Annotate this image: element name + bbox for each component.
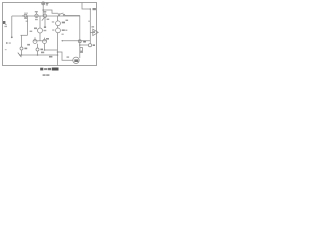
label TR5 <box>62 29 65 31</box>
potentiometer VR3 <box>43 12 46 17</box>
node on bottom rail <box>57 51 59 53</box>
caption word 7.1 <box>44 68 47 70</box>
node on rail second row <box>79 44 81 46</box>
potentiometer VR1 <box>22 14 27 17</box>
terminal T1b <box>36 48 39 51</box>
node top right <box>90 8 92 10</box>
wire output row to T2 <box>62 40 91 42</box>
caption word bold <box>52 68 59 71</box>
diode D1 on lower bus <box>18 53 22 58</box>
label ground <box>9 42 11 43</box>
label small below VR1 <box>26 21 28 22</box>
jack tail <box>5 24 7 25</box>
wire top-right from frame <box>82 3 90 10</box>
label TR3 <box>34 28 37 30</box>
label TR4 <box>62 22 65 24</box>
terminal T3 <box>88 44 91 47</box>
subcaption word 2 <box>46 74 49 76</box>
node riser meets bus <box>43 15 44 16</box>
label top right <box>93 8 96 10</box>
wire riser left <box>11 16 13 37</box>
meter M1 <box>73 57 79 63</box>
label right of TR5 <box>65 30 67 31</box>
wire to terminal <box>21 35 23 47</box>
wire bottom rail to meter <box>58 52 73 60</box>
node at supply branch <box>42 9 44 11</box>
label VR1 below <box>24 18 27 19</box>
label T1 <box>24 48 27 50</box>
transistor TR3 <box>38 16 43 41</box>
transistor TR4 <box>56 21 61 26</box>
wire T1b to bus <box>37 51 39 55</box>
label plus marks <box>66 20 69 21</box>
wire op-amp column down <box>89 30 91 44</box>
label above op-amp <box>92 26 95 27</box>
label T2 <box>83 41 86 43</box>
label below TR5 <box>62 34 64 35</box>
wire TR5 down to bottom frame <box>57 33 59 66</box>
resistor R1 on rail <box>80 48 83 53</box>
label VR3 bottom <box>47 19 50 20</box>
wire supply branch to switch <box>43 10 58 13</box>
subcaption word 1 <box>43 74 46 76</box>
label TR3b <box>44 30 47 31</box>
op-amp U1 <box>93 29 98 35</box>
lower bus <box>19 54 58 56</box>
label left of TR5 <box>52 29 54 30</box>
transistor TR6 <box>33 40 37 44</box>
faint mark left frame <box>5 49 7 50</box>
horizontal pair wire <box>33 40 47 42</box>
trimmer lead below VR3 <box>44 18 46 27</box>
wire switch to right rail <box>65 15 80 17</box>
wire TR6 to T1b <box>37 44 39 48</box>
label TR7 <box>46 38 49 40</box>
top bus <box>12 15 80 17</box>
node under TR7 <box>44 49 46 51</box>
wire T1 to bus <box>21 50 23 55</box>
tick on op-amp column <box>88 21 90 22</box>
label left of TR4 <box>52 21 54 22</box>
ground mark lower-left <box>6 42 8 44</box>
label left of TR5 column <box>49 56 52 58</box>
trimmer end mark <box>44 26 46 28</box>
vertical wire right stack <box>57 16 59 21</box>
horizontal wire H1 <box>21 34 28 36</box>
label T1b <box>40 49 43 51</box>
wire TR4 to TR5 <box>57 26 59 29</box>
transistor TR7 <box>43 40 47 44</box>
wire horizontal to T3 <box>80 44 89 46</box>
terminal T2 <box>78 40 81 43</box>
stub above TR7 <box>44 38 46 40</box>
node bottom of riser <box>11 36 13 38</box>
caption word Fig. <box>40 68 43 71</box>
potentiometer VR2 <box>35 12 38 17</box>
wire TR7 down <box>44 44 46 51</box>
label jack <box>4 26 7 27</box>
stub above TR6 <box>34 37 36 39</box>
wire right rail <box>79 16 81 59</box>
input jack J1 <box>3 21 5 24</box>
label above meter <box>67 56 70 57</box>
label +9V second row <box>46 4 48 5</box>
label mid-left <box>30 31 33 32</box>
label TR6 <box>27 44 30 46</box>
trimmer arrow <box>42 18 45 21</box>
label T3 <box>93 44 95 46</box>
frame <box>3 3 97 66</box>
wire op-amp input <box>90 31 93 33</box>
wire B1 to top bus <box>42 5 44 16</box>
node start of output row <box>62 40 63 41</box>
label VR1 above <box>24 13 28 14</box>
value label R1 <box>81 51 83 52</box>
caption word mid <box>48 68 51 70</box>
node lower-left <box>21 54 23 56</box>
battery B1 positive terminal <box>42 2 45 5</box>
label VR2 bottom <box>35 19 38 20</box>
node lower-mid <box>37 54 39 56</box>
transistor TR5 <box>56 28 61 33</box>
switch S1 <box>58 13 65 16</box>
label near lower bus <box>41 52 44 54</box>
op-amp input signs <box>93 31 95 33</box>
label VR2 top <box>35 11 38 12</box>
label +9V <box>46 3 49 4</box>
label VR3 top <box>43 11 46 12</box>
node lower bus right end <box>57 54 59 56</box>
wire across lower middle <box>45 49 58 51</box>
terminal T1 <box>20 47 23 50</box>
wire down to op-amp <box>89 9 91 30</box>
mid-left vertical wire <box>27 16 29 35</box>
